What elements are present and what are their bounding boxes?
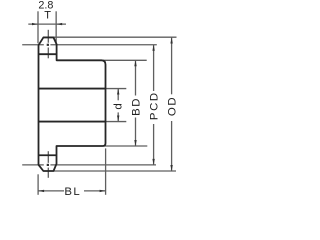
svg-text:d: d [112,103,124,109]
svg-text:OD: OD [166,96,178,116]
svg-text:BL: BL [64,186,81,198]
svg-text:PCD: PCD [149,91,161,120]
svg-text:T: T [44,10,51,22]
svg-text:BD: BD [131,97,143,116]
